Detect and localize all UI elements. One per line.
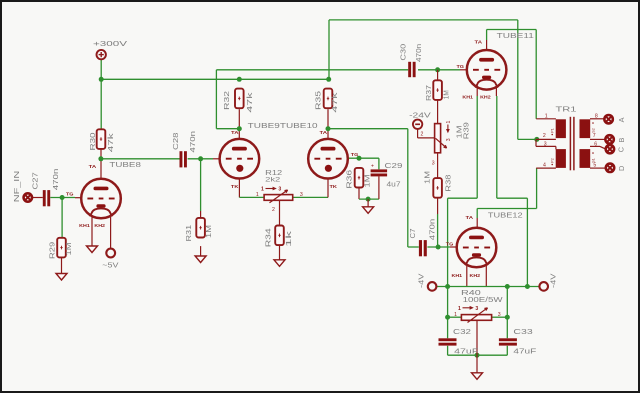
value 1M of R37 [441,90,450,99]
ground below R34 [274,245,285,266]
wire R12 pin3 to TUBE10 cathode [293,179,328,198]
capacitor C33 [499,338,517,345]
svg-text:47uF: 47uF [454,347,479,356]
svg-text:+300V: +300V [93,39,127,48]
label -4V left [417,273,426,288]
label TUBE9 TUBE10 [248,121,318,130]
pin label TK of TUBE9 [231,184,239,190]
wire TR1 pin4 stub [536,167,556,169]
terminal B [605,135,613,143]
svg-text:TG: TG [446,242,454,248]
terminal A [604,115,612,123]
resistor R37 [433,80,442,100]
svg-text:3: 3 [432,161,435,167]
svg-text:1M: 1M [204,225,213,238]
tube TUBE10 [308,139,348,179]
label TUBE8 [109,160,140,169]
junction TUBE10 anode node [326,126,331,131]
resistor R32 [235,89,244,109]
wire C33 bottom [506,346,508,355]
svg-text:3: 3 [544,142,547,148]
svg-text:47k: 47k [106,133,115,153]
wire +300V rail [101,78,329,80]
junction C28/R31/TUBE9 grid [198,156,203,161]
svg-text:-24V: -24V [409,110,431,119]
pin label TA of TUBE8 [89,164,97,170]
value 470n of C28 [188,131,197,153]
svg-text:1: 1 [446,120,452,123]
value 1k of R34 [284,230,293,247]
svg-text:TG: TG [457,64,465,70]
ground below R29 [56,257,67,280]
wire C28 to TUBE9 grid [188,158,220,160]
label R35 [314,91,323,110]
svg-text:3: 3 [446,138,452,141]
potentiometer R40 [461,308,491,323]
tube TUBE12 [457,228,497,268]
svg-text:R34: R34 [263,228,272,247]
wire R36 bottom to C29 bottom [359,176,379,199]
svg-text:TA: TA [89,164,97,170]
label C7 [408,229,417,239]
pin label KH2 of TUBE8 [94,223,105,229]
marking 1-3 of R40 [458,306,478,312]
value 47k of R35 [330,92,339,113]
svg-text:R37: R37 [424,85,433,101]
label NF_IN [12,171,21,203]
wire R40 wiper to ground bus [476,320,478,355]
capacitor C27 [43,190,50,206]
label D [617,166,626,171]
wire TUBE11 KH2 to -4V rail [496,84,527,287]
resistor R38 [433,178,442,198]
label C32 [453,327,471,336]
svg-text:1: 1 [261,187,264,193]
wire down to R29 [61,198,63,238]
ground below R31 [195,246,206,262]
wire TR1 pin8 stub [590,118,604,120]
label C [616,147,625,152]
marking 1-3 of R39 [446,120,452,141]
label C29 [385,161,403,170]
terminal ~5V [106,249,115,258]
wire C30 to TUBE11 grid [418,69,467,71]
junction R40 pin1 node [445,315,450,320]
pin number 5 of TR1 [593,162,596,168]
wire C7 to TUBE12 grid [427,246,456,248]
junction +300V at R32 [237,77,242,82]
wire R30 to TUBE8 anode [100,149,102,179]
wire TUBE10 anode to C7 horizontal [328,128,408,130]
wire TR1 pin1 stub [536,118,556,120]
label C27 [31,172,40,189]
svg-text:KH2: KH2 [94,223,105,229]
label TUBE12 [488,211,523,220]
svg-text:47uF: 47uF [513,347,537,356]
svg-text:3: 3 [300,192,303,198]
wire TUBE8 KH2 pin [110,217,112,249]
svg-text:470n: 470n [51,169,60,191]
svg-text:C7: C7 [408,229,417,239]
wire TUBE8 KH1 pin [91,217,93,247]
resistor R36 [355,168,364,188]
wire TR1 pin2 stub [536,138,556,140]
pin label TG of TUBE8 [66,191,74,197]
pin label KH1 of TUBE8 [79,223,90,229]
svg-text:TUBE9TUBE10: TUBE9TUBE10 [248,121,318,130]
label C33 [513,327,532,336]
svg-text:C33: C33 [513,327,532,336]
wire R35 to TUBE10 anode [327,109,329,139]
label R36 [344,170,353,189]
pin label TG of TUBE12 [446,242,454,248]
terminal C [606,145,614,153]
svg-text:4u7: 4u7 [387,179,401,188]
pin number 3 of R12 [300,192,303,198]
svg-text:1M: 1M [441,90,450,99]
wire to TR1 pin2 [518,138,536,140]
value 470n of C30 [414,44,423,62]
svg-text:2: 2 [421,132,424,138]
pin label KH1 of TUBE12 [452,273,463,279]
ground below TUBE8 KH1 [87,246,98,253]
wire +300V rail riser to top [328,20,330,79]
pin label KH2 of TUBE11 [480,95,491,101]
svg-text:B: B [617,138,626,143]
pin number 7 of TR1 [593,133,596,139]
svg-text:TA: TA [320,130,328,136]
wire TUBE12 anode to TR1 pin4 [477,168,536,228]
label TUBE11 [497,31,534,40]
svg-text:R38: R38 [444,175,453,192]
wire C32 bottom [447,346,449,355]
pin number 2 of TR1 [543,133,546,139]
svg-text:S1: S1 [591,158,595,162]
junction TUBE9 anode node [237,126,242,131]
svg-text:TUBE8: TUBE8 [109,160,140,169]
pin label TK of TUBE10 [330,184,338,190]
capacitor C28 [180,151,187,167]
value 47uF of C32 [454,347,479,356]
svg-text:NF_IN: NF_IN [12,171,21,203]
svg-text:TUBE11: TUBE11 [497,31,534,40]
svg-text:+: + [371,164,374,170]
winding mark S2 [591,122,595,133]
wire anode node to C28 [101,158,180,160]
label R40 [461,288,481,297]
junction +300V rail [99,77,104,82]
svg-text:3: 3 [278,187,281,193]
wire TR1 pin7 stub [590,138,605,140]
wire TUBE9 cathode to R12 pin1 [239,179,264,198]
svg-text:P2: P2 [551,158,555,162]
wire TUBE11 KH1 to -4V rail [448,84,478,338]
wire to C7 left plate [408,246,419,248]
pin number 6 of TR1 [594,142,597,148]
resistor R34 [275,226,284,246]
wire bottom ground bus [448,354,508,356]
transformer TR1 secondary winding S1 [580,119,591,138]
wire TUBE9 anode to C30 (left leg) [216,128,239,130]
tube TUBE11 [467,50,507,90]
supply -24V [413,120,422,129]
wire TR1 pin5 stub [590,167,605,169]
svg-text:7: 7 [593,133,596,139]
label C30 [398,44,407,61]
wire TUBE12 KH2 pin [485,262,487,287]
resistor R31 [196,218,205,238]
label R39 [462,122,471,139]
svg-text:R31: R31 [184,225,193,242]
svg-text:C30: C30 [398,44,407,61]
svg-text:1: 1 [545,114,548,120]
wire TUBE10 grid to R36/C29 node [348,157,359,159]
label B [617,138,626,143]
svg-text:R29: R29 [48,242,57,259]
junction TUBE8 anode node [98,156,103,161]
pin label TA of TUBE10 [320,130,328,136]
junction -4V rail left [445,284,450,289]
svg-text:1: 1 [454,312,457,318]
svg-text:KH1: KH1 [452,273,463,279]
junction +300V rail end [326,77,331,82]
svg-text:KH1: KH1 [462,95,473,101]
svg-text:KH2: KH2 [470,273,481,279]
ground below R36/C29 [363,199,374,213]
pin number 8 of TR1 [595,114,598,120]
label R34 [263,228,272,247]
svg-text:470n: 470n [427,219,436,241]
value 1M of R31 [204,225,213,238]
label -24V [409,110,431,119]
pin label TA of TUBE11 [475,40,483,46]
wire grid node to C29 [359,158,379,169]
junction -4V rail KH2 drop [525,284,530,289]
junction TR1 pin2 [534,137,539,142]
svg-text:TA: TA [475,40,483,46]
svg-text:-4V: -4V [549,273,558,288]
svg-text:2k2: 2k2 [265,177,280,184]
svg-text:KH1: KH1 [79,223,90,229]
svg-text:1k: 1k [284,230,293,247]
value 100E/5W of R40 [463,295,503,304]
svg-text:1M: 1M [64,243,73,256]
wire TUBE11 anode to TR1 pin1 [487,30,537,119]
label R31 [184,225,193,242]
value 1M of R39 [454,126,463,139]
value 47k of R32 [245,92,254,113]
wire TUBE9 anode to C30 horizontal [216,69,408,71]
label R12 [265,168,282,177]
transformer TR1 secondary winding S2 [580,149,591,168]
wire +300V supply drop [100,59,102,129]
wire R12 wiper to R34 [279,200,281,225]
svg-text:R36: R36 [344,170,353,189]
capacitor C32 [439,338,457,345]
junction C7/R38/TUBE12 grid [436,245,441,250]
capacitor C29 [371,164,388,177]
svg-text:1: 1 [256,192,259,198]
svg-text:~5V: ~5V [102,261,118,270]
svg-text:4: 4 [543,162,546,168]
ground below R40 [472,355,483,379]
pin number 2 of R39 [421,132,424,138]
svg-text:C: C [616,147,625,152]
svg-text:TA: TA [231,130,239,136]
pin number 1 of R40 [454,312,457,318]
svg-text:8: 8 [595,114,598,120]
svg-text:470n: 470n [414,44,423,62]
wire right riser to TR1 center tap [517,20,519,139]
tube TUBE8 [81,179,121,219]
wire R40 pin3 stub [492,316,508,318]
svg-text:2: 2 [272,207,275,213]
pin number 3 of R40 [498,312,501,318]
potentiometer R39 [435,124,447,153]
pin number 1 of TR1 [545,114,548,120]
label C28 [171,133,180,150]
pin label TA of TUBE12 [466,215,474,221]
wire NF_IN to C27 [32,197,43,199]
wire TR1 pin2-pin3 link [535,139,537,146]
wire -4V rail [436,286,539,288]
svg-text:TR1: TR1 [556,104,577,113]
pin label TG of TUBE10 [351,152,359,158]
transformer TR1 label [556,104,577,113]
transformer TR1 core [570,117,574,171]
svg-text:3: 3 [498,312,501,318]
winding mark P1 [551,128,555,135]
wire C27 to TUBE8 grid [50,197,81,199]
svg-text:3: 3 [475,306,478,312]
pin number 2 of R12 [272,207,275,213]
value 1M of R36 [362,175,371,188]
svg-text:R30: R30 [88,133,97,151]
wire R37 chain pin segments [437,70,439,247]
tube TUBE9 [220,139,260,179]
svg-text:R32: R32 [222,91,231,110]
wire -24V supply to R39 wiper [418,129,435,138]
wire top horizontal +300V link [329,19,518,21]
pin label TA of TUBE9 [231,130,239,136]
junction bottom ground node [475,353,480,358]
winding mark P2 [551,158,555,165]
svg-text:C27: C27 [31,172,40,189]
label R30 [88,133,97,151]
wire R40 pin1 stub [448,316,462,318]
wire TUBE10 anode to C7 vertical [407,129,409,247]
svg-text:C29: C29 [385,161,403,170]
terminal -4V left [428,282,437,291]
junction TUBE10 grid node [357,156,362,161]
winding mark S1 [591,152,595,163]
svg-text:2: 2 [543,133,546,139]
wire TR1 pin6 stub [590,146,606,149]
resistor R29 [57,238,66,258]
transformer TR1 primary winding P1 [556,119,566,138]
svg-text:R35: R35 [314,91,323,110]
label R32 [222,91,231,110]
value 2k2 of R12 [265,177,280,184]
label +300V [93,39,127,48]
potentiometer R12 [264,190,293,203]
value 1M of R29 [64,243,73,256]
svg-text:470n: 470n [188,131,197,153]
marking 1-3 of R12 [261,187,281,193]
junction ground node below R36 [366,197,371,202]
transformer TR1 primary winding P2 [556,149,566,168]
wire TR1 pin3 stub [536,146,556,149]
svg-text:KH2: KH2 [480,95,491,101]
svg-text:C32: C32 [453,327,471,336]
svg-text:R39: R39 [462,122,471,139]
value 1M of R38 [422,171,431,184]
terminal NF_IN [24,193,32,201]
svg-text:-4V: -4V [417,273,426,288]
svg-text:47k: 47k [330,92,339,113]
wire TUBE9 anode riser [215,70,217,129]
junction node at C27/R29/TUBE8 grid [60,195,65,200]
label R38 [444,175,453,192]
value 470n of C7 [427,219,436,241]
junction -4V rail right [505,284,510,289]
value 4u7 of C29 [387,179,401,188]
label A [617,117,626,122]
svg-text:P1: P1 [551,128,555,132]
pin label KH2 of TUBE12 [470,273,481,279]
svg-text:1: 1 [458,306,461,312]
supply +300V [97,50,106,59]
junction C30/R37/TUBE11 grid [435,67,440,72]
wire R32 to TUBE9 anode [238,109,240,139]
svg-text:C28: C28 [171,133,180,150]
pin label KH1 of TUBE11 [462,95,473,101]
svg-text:1M: 1M [362,175,371,188]
svg-text:6: 6 [594,142,597,148]
svg-text:1M: 1M [422,171,431,184]
value 47uF of C33 [513,347,537,356]
svg-text:D: D [617,166,626,171]
svg-text:A: A [617,117,626,122]
value 47k of R30 [106,133,115,153]
svg-text:TK: TK [231,184,239,190]
label R37 [424,85,433,101]
capacitor C30 [408,62,415,77]
value 470n of C27 [51,169,60,191]
pin number 3 of R39 [432,161,435,167]
resistor R30 [97,129,106,149]
terminal -4V right [539,282,548,291]
label -4V right [549,273,558,288]
junction R40 pin3 node [505,315,510,320]
capacitor C7 [419,240,427,256]
wire R40 pin3 branch [506,287,508,339]
svg-text:47k: 47k [245,92,254,113]
terminal D [606,164,614,172]
svg-text:100E/5W: 100E/5W [463,295,503,304]
pin number 1 of R12 [256,192,259,198]
svg-text:TG: TG [66,191,74,197]
wire TUBE12 KH1 pin [466,262,468,287]
svg-text:S2: S2 [591,128,595,132]
svg-text:TA: TA [466,215,474,221]
pin number 3 of TR1 [544,142,547,148]
resistor R35 [324,89,333,109]
svg-text:TUBE12: TUBE12 [488,211,523,220]
label R29 [48,242,57,259]
svg-text:TG: TG [351,152,359,158]
wire down to R31 [200,159,202,218]
